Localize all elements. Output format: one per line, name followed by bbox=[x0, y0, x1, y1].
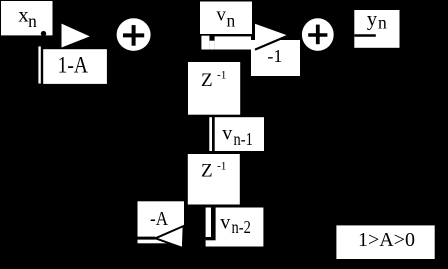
wire gap (horizontal) bbox=[206, 237, 211, 240]
condition box 1>A>0 bbox=[336, 225, 434, 259]
node box v_n-1 bbox=[215, 117, 264, 151]
adder 1 bbox=[117, 18, 151, 51]
svg-text:n-2: n-2 bbox=[232, 217, 251, 238]
gain block 1-A box bbox=[43, 49, 107, 84]
svg-text:n: n bbox=[28, 11, 37, 31]
node box v_n bbox=[200, 2, 252, 35]
gain block -1 box bbox=[251, 40, 300, 76]
wire (filler) bbox=[209, 41, 214, 50]
gain block -A box bbox=[138, 201, 185, 243]
svg-text:v: v bbox=[220, 211, 230, 233]
svg-text:-1: -1 bbox=[217, 70, 226, 82]
delay block Z^-1 (second) bbox=[188, 154, 240, 205]
svg-text:n: n bbox=[378, 13, 387, 33]
wire into -A triangle tip (black over white) bbox=[138, 237, 156, 240]
wire (horizontal to -1 gain) bbox=[215, 36, 251, 49]
svg-text:1-A: 1-A bbox=[58, 52, 89, 78]
svg-text:Z: Z bbox=[201, 70, 213, 91]
node dot on x_n box bbox=[41, 31, 46, 36]
wire gap notch bbox=[211, 208, 216, 241]
wire (vertical, left of v_n-1 box) bbox=[209, 117, 212, 151]
adder 2 bbox=[302, 18, 334, 51]
input box x_n bbox=[1, 1, 53, 35]
amplifier triangle (-A, pointing left) bbox=[155, 226, 183, 248]
svg-text:-A: -A bbox=[150, 208, 168, 231]
amplifier triangle (-1) bbox=[255, 24, 288, 50]
amplifier triangle (1-A) bbox=[62, 24, 90, 48]
svg-text:-1: -1 bbox=[217, 160, 226, 172]
svg-text:v: v bbox=[222, 123, 232, 145]
delay block Z^-1 (first) bbox=[188, 62, 240, 115]
svg-text:1>A>0: 1>A>0 bbox=[358, 229, 415, 251]
svg-text:-1: -1 bbox=[267, 46, 282, 66]
svg-text:n-1: n-1 bbox=[234, 128, 253, 149]
svg-text:n: n bbox=[227, 11, 236, 31]
wire (vertical below v_n) bbox=[201, 36, 209, 50]
output box y_n bbox=[354, 9, 399, 48]
svg-text:v: v bbox=[216, 5, 226, 26]
svg-text:Z: Z bbox=[201, 161, 213, 182]
node box v_n-2 bbox=[206, 208, 264, 247]
svg-text:y: y bbox=[367, 9, 378, 31]
wire (vertical, left of 1-A box) bbox=[38, 46, 40, 83]
wire into y_n (black over white) bbox=[354, 34, 376, 37]
